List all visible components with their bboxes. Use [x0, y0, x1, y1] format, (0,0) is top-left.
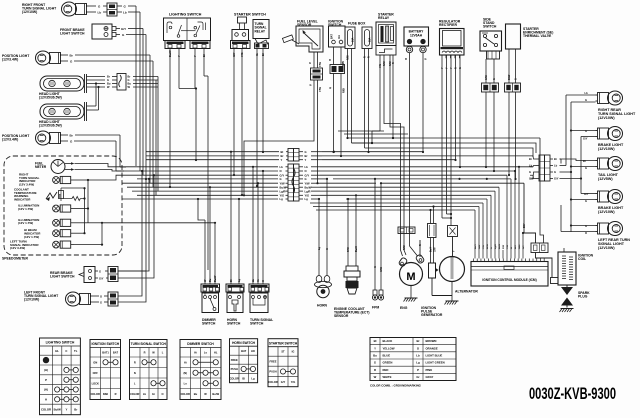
svg-text:R/W: R/W — [383, 61, 386, 66]
svg-text:R/Bl: R/Bl — [519, 244, 521, 249]
svg-text:COLOR: COLOR — [41, 408, 51, 412]
svg-text:R: R — [368, 56, 371, 58]
svg-text:(12V 1.7W): (12V 1.7W) — [24, 235, 39, 239]
bus branch wires right section — [333, 178, 524, 199]
svg-text:Bu/W: Bu/W — [212, 392, 219, 396]
svg-text:SWITCH: SWITCH — [227, 322, 241, 326]
ignition coil primary terminal — [551, 278, 559, 284]
svg-text:TURN SIGNAL SWITCH: TURN SIGNAL SWITCH — [131, 342, 167, 346]
svg-text:(12V10W): (12V10W) — [598, 116, 615, 120]
wires tail light — [570, 159, 596, 170]
svg-text:G: G — [554, 170, 556, 174]
svg-text:(12V3.4W): (12V3.4W) — [2, 58, 18, 62]
svg-text:METER: METER — [35, 165, 47, 169]
svg-text:Bl/W: Bl/W — [487, 243, 489, 249]
svg-text:Lg: Lg — [305, 197, 309, 201]
svg-text:Hi: Hi — [194, 350, 197, 354]
bulb brake light upper — [596, 127, 623, 141]
svg-text:R/Bl: R/Bl — [347, 55, 350, 60]
svg-text:G/W: G/W — [380, 266, 383, 272]
svg-text:(12V 1.7W): (12V 1.7W) — [18, 221, 33, 225]
svg-text:Lg: Lg — [238, 278, 241, 282]
wires rear brake switch to connector — [99, 270, 108, 281]
svg-text:G/Y: G/Y — [281, 380, 286, 384]
svg-text:Bu: Bu — [128, 82, 132, 86]
label position light lower — [2, 134, 30, 142]
harness bus wires out of connector A — [299, 150, 530, 162]
svg-text:W: W — [128, 85, 131, 89]
svg-text:BLACK: BLACK — [383, 339, 393, 343]
label horn switch — [227, 318, 241, 326]
ICM pin wires — [475, 243, 525, 258]
table ignition switch contact table — [90, 340, 121, 400]
wire Br position light lower — [64, 134, 126, 168]
svg-text:IG1: IG1 — [338, 34, 341, 39]
svg-text:Bu/W: Bu/W — [214, 275, 217, 282]
svg-text:Y: Y — [453, 250, 456, 252]
harness wire y134 — [344, 133, 408, 135]
svg-text:Lo: Lo — [184, 381, 188, 385]
svg-text:R/W: R/W — [403, 245, 406, 250]
svg-text:Bl/W: Bl/W — [508, 74, 511, 80]
wire Lb from right front turn signal — [90, 11, 107, 15]
svg-text:(12V10W): (12V10W) — [22, 10, 37, 14]
turn signal switch — [250, 293, 268, 313]
svg-text:Y/G: Y/G — [379, 64, 382, 68]
wires SE valve below connector — [508, 92, 517, 180]
wires brake light lower — [570, 192, 596, 203]
svg-text:(12V10W): (12V10W) — [24, 298, 39, 302]
label turn signal switch — [250, 318, 273, 326]
side stand switch — [480, 31, 502, 59]
svg-text:Y: Y — [66, 408, 68, 412]
svg-text:Y/W: Y/W — [318, 62, 322, 67]
label starter relay — [378, 13, 394, 21]
label headlight 2 — [39, 120, 62, 128]
svg-text:GENERATOR: GENERATOR — [421, 313, 443, 317]
svg-text:LOCK: LOCK — [92, 381, 99, 385]
wires into rear connector — [529, 156, 539, 181]
wire G left front turn signal to harness — [118, 178, 147, 302]
bulb position light lower — [36, 131, 65, 145]
svg-text:HORN SWITCH: HORN SWITCH — [232, 341, 256, 345]
wire G position light lower — [64, 140, 124, 172]
svg-text:Y/G: Y/G — [240, 53, 244, 57]
svg-text:G/Y: G/Y — [121, 27, 126, 31]
svg-text:G: G — [99, 270, 101, 274]
svg-text:COLOR: COLOR — [181, 392, 190, 396]
lighting switch — [164, 18, 211, 41]
label left front turn signal light — [24, 291, 59, 302]
svg-text:Y: Y — [305, 158, 307, 162]
svg-text:G: G — [374, 266, 377, 268]
svg-text:10A: 10A — [352, 37, 355, 42]
svg-text:BAT1: BAT1 — [102, 350, 109, 354]
bulb right front turn signal light — [62, 2, 91, 16]
spark plug gap — [561, 285, 573, 306]
wire Bl from lighting switch — [202, 49, 208, 271]
wire ICM to ignition coil branch — [522, 232, 524, 250]
svg-text:Bu: Bu — [194, 392, 198, 396]
svg-text:Br: Br — [583, 159, 586, 163]
wires headlight 1 to connector — [87, 75, 118, 90]
connector ignition switch 2P — [329, 47, 345, 74]
wire G/Y from front brake switch — [116, 27, 143, 175]
left turn signal indicator — [53, 241, 74, 248]
svg-text:(12V35/36.5W): (12V35/36.5W) — [39, 96, 62, 100]
label right turn signal indicator — [19, 173, 40, 187]
dimmer switch — [202, 293, 219, 313]
svg-text:0030Z-KVB-9300: 0030Z-KVB-9300 — [529, 385, 616, 403]
svg-text:Bu/W: Bu/W — [168, 50, 172, 57]
wires SE valve down — [508, 49, 517, 83]
wire Y/G from starter switch — [240, 49, 244, 197]
wire G battery — [422, 53, 427, 153]
svg-text:Lo: Lo — [204, 350, 208, 354]
svg-text:COLOR COMB. : GROUND/MARKING: COLOR COMB. : GROUND/MARKING — [370, 384, 422, 388]
svg-text:ALTERNATOR: ALTERNATOR — [455, 290, 478, 294]
svg-text:PUSH: PUSH — [269, 370, 276, 374]
svg-text:LIGHT SWITCH: LIGHT SWITCH — [50, 275, 75, 279]
svg-text:DIMMER SWITCH: DIMMER SWITCH — [187, 342, 214, 346]
harness wire y131 — [338, 130, 384, 132]
label ignition switch — [328, 20, 344, 28]
junction stair left harness — [0, 0, 1, 1]
svg-text:ON: ON — [93, 360, 97, 364]
svg-text:IGNITION CONTROL MODULE (ICM): IGNITION CONTROL MODULE (ICM) — [482, 278, 536, 282]
wire fuse2 down — [364, 49, 371, 154]
svg-text:STARTER SWITCH: STARTER SWITCH — [269, 341, 298, 345]
bulb tail light — [596, 157, 623, 171]
wire Bu/W from lighting switch — [168, 49, 172, 189]
rear light bus vertical Lb — [560, 95, 596, 166]
svg-text:(12V10W): (12V10W) — [598, 147, 615, 151]
ICM harness elbow bundle — [475, 187, 499, 250]
dimmer switch wires — [204, 268, 217, 284]
svg-text:R: R — [364, 56, 367, 58]
wires regulator down — [441, 55, 462, 226]
label ignition pulse generator — [421, 306, 443, 317]
wire FPM G from bus — [374, 179, 376, 240]
svg-text:PUSH: PUSH — [231, 367, 238, 371]
connector rear brake switch 2P — [108, 267, 118, 282]
regulator rectifier — [440, 29, 465, 59]
bulb left rear turn signal light — [596, 222, 623, 236]
svg-text:IGNITION SWITCH: IGNITION SWITCH — [91, 342, 119, 346]
svg-text:G: G — [100, 301, 102, 305]
horn switch connector — [226, 284, 244, 292]
right turn signal indicator lamp — [53, 176, 74, 183]
svg-text:G: G — [491, 247, 493, 249]
svg-text:Gr: Gr — [255, 53, 259, 56]
svg-text:P/W: P/W — [503, 244, 505, 249]
svg-text:HO: HO — [251, 349, 255, 353]
speedometer dashed enclosure — [2, 156, 122, 261]
svg-text:G: G — [585, 129, 587, 133]
svg-text:G/W: G/W — [479, 244, 481, 249]
left bus stair jog — [75, 164, 133, 181]
label regulator rectifier — [439, 20, 461, 28]
svg-text:W/B: W/B — [59, 193, 61, 198]
svg-text:(N): (N) — [183, 371, 187, 375]
wire fuse1 down — [346, 49, 351, 144]
svg-text:R: R — [329, 59, 331, 62]
svg-text:INDICATOR: INDICATOR — [14, 197, 31, 201]
svg-text:BAT: BAT — [113, 350, 119, 354]
svg-text:R: R — [392, 62, 395, 64]
connector left front turn signal 2P — [108, 292, 118, 306]
wires headlight 2 join — [87, 82, 100, 110]
connector A 3P — [288, 149, 299, 162]
svg-text:Br: Br — [554, 157, 557, 161]
label illumination lamp 2 — [18, 218, 39, 225]
svg-text:Lg/R: Lg/R — [495, 244, 497, 249]
wire GY to brake upper — [581, 136, 596, 138]
svg-text:Bl: Bl — [281, 150, 284, 154]
wire G to brake upper — [570, 129, 596, 131]
svg-text:Bl: Bl — [230, 279, 233, 282]
svg-text:H: H — [45, 398, 47, 402]
wire G to harness — [117, 5, 136, 167]
svg-text:Lb: Lb — [280, 165, 284, 169]
svg-text:Y: Y — [177, 55, 181, 57]
wire Lg horn from bus — [318, 198, 320, 240]
label coolant temperature warning indicator — [14, 188, 37, 202]
wire R/Bl from ignition switch — [340, 74, 346, 158]
svg-text:GRAY: GRAY — [426, 375, 434, 379]
svg-text:Bl/Y: Bl/Y — [515, 244, 517, 249]
wires headlight connector to harness — [128, 75, 159, 196]
svg-text:LIGHT BLUE: LIGHT BLUE — [426, 354, 443, 358]
wires horn switch to harness — [230, 151, 240, 268]
label rear brake light switch — [50, 271, 75, 279]
starter motor M — [398, 240, 425, 286]
headlight 1 — [40, 74, 87, 93]
table wire color legend — [370, 338, 456, 381]
connector alternator inline — [448, 226, 458, 237]
starter enrichment thermal valve — [506, 24, 521, 49]
wires brake light upper — [583, 129, 588, 141]
svg-text:R/Bl: R/Bl — [343, 88, 346, 93]
harness wire y148 — [365, 148, 534, 157]
svg-text:G: G — [70, 140, 73, 144]
label engine coolant temperature sensor — [334, 307, 370, 318]
svg-text:Bu: Bu — [107, 82, 111, 86]
label right rear turn signal light — [598, 108, 636, 120]
svg-text:Y: Y — [450, 67, 453, 69]
wire G horn from bus — [326, 178, 328, 240]
hi beam indicator — [53, 230, 74, 237]
svg-text:Lg/R: Lg/R — [280, 189, 286, 193]
svg-text:Y: Y — [374, 346, 376, 350]
svg-text:Br: Br — [128, 75, 131, 79]
svg-text:Y/G: Y/G — [280, 194, 285, 198]
svg-text:G: G — [310, 83, 312, 87]
svg-text:Lb: Lb — [252, 278, 255, 282]
svg-text:R: R — [115, 392, 117, 396]
wires side stand below connector — [485, 92, 495, 172]
bulb left front turn signal light — [66, 292, 95, 306]
svg-text:LIGHT GREEN: LIGHT GREEN — [426, 361, 445, 365]
fuse 1 — [345, 27, 355, 49]
wire G from right front turn signal — [90, 5, 107, 9]
label front brake light switch — [60, 28, 85, 36]
wire ECT Bu/O from bus — [355, 194, 357, 240]
wire Gr from turn signal relay — [255, 49, 259, 188]
headlight 2 — [40, 102, 87, 121]
svg-text:N: N — [134, 371, 136, 375]
connector SE valve 2P — [505, 83, 521, 92]
wire FPM G/W from bus — [380, 182, 382, 240]
svg-text:Lb: Lb — [98, 11, 102, 15]
svg-text:WHITE: WHITE — [383, 375, 392, 379]
svg-text:(12V10W): (12V10W) — [598, 246, 615, 250]
svg-text:P: P — [45, 378, 47, 382]
connector right front turn signal 2P — [107, 3, 117, 16]
label position light upper — [2, 54, 30, 62]
svg-text:Bu/O: Bu/O — [499, 243, 501, 249]
svg-text:OFF: OFF — [93, 371, 99, 375]
svg-text:Bu: Bu — [209, 278, 212, 282]
harness bus wires into connector A — [146, 150, 288, 162]
wire Bl/W down to coil connector — [540, 150, 544, 243]
svg-text:O: O — [100, 295, 102, 299]
lighting switch connector left — [165, 41, 185, 49]
label ignition coil — [578, 254, 594, 262]
svg-text:Lb: Lb — [416, 354, 420, 358]
horn switch wires — [230, 268, 241, 284]
wire rear brake switch G/Y to harness — [118, 174, 155, 278]
svg-text:Bu/Y: Bu/Y — [431, 246, 433, 252]
illumination lamp 1 — [53, 205, 74, 212]
label fuel level sensor — [297, 20, 318, 28]
starter switch — [232, 17, 249, 41]
svg-text:RECTIFIER: RECTIFIER — [439, 23, 457, 27]
svg-text:R: R — [134, 360, 136, 364]
connector ignition pulse generator inline — [428, 224, 437, 238]
label left turn signal indicator — [10, 240, 39, 251]
svg-text:O: O — [161, 392, 163, 396]
svg-text:ORANGE: ORANGE — [426, 346, 438, 350]
svg-text:Hi: Hi — [184, 360, 187, 364]
label dimmer switch — [202, 318, 216, 326]
svg-text:G/Y: G/Y — [232, 52, 236, 57]
svg-text:G/Y: G/Y — [554, 177, 559, 181]
svg-text:ST: ST — [281, 350, 285, 354]
svg-text:P: P — [417, 368, 419, 372]
svg-text:P/W: P/W — [347, 247, 350, 252]
harness wire y138 — [348, 137, 541, 150]
svg-text:HL: HL — [55, 349, 59, 353]
horn — [315, 240, 332, 298]
ICM feed verticals — [507, 167, 519, 250]
alternator — [440, 237, 465, 282]
svg-text:IG: IG — [292, 350, 295, 354]
svg-text:R: R — [405, 57, 407, 61]
svg-text:Bl: Bl — [261, 53, 265, 56]
dimmer switch connector — [201, 284, 220, 292]
svg-text:BAT: BAT — [331, 34, 334, 39]
svg-text:BLUE: BLUE — [383, 354, 391, 358]
svg-text:Y: Y — [446, 67, 449, 69]
svg-text:Br: Br — [107, 75, 110, 79]
svg-text:Lg: Lg — [280, 197, 284, 201]
svg-text:G: G — [374, 361, 376, 365]
harness bus wires out of connector B — [299, 165, 533, 201]
svg-text:RED: RED — [383, 368, 389, 372]
svg-text:W: W — [152, 350, 155, 354]
ground under alternator — [445, 282, 459, 305]
table turn signal switch contact table — [130, 340, 168, 400]
wire from fuel sensor to connector — [309, 52, 322, 68]
svg-text:COLOR: COLOR — [268, 380, 277, 384]
svg-text:O: O — [280, 169, 282, 173]
rear light bus vertical GY — [560, 137, 583, 194]
svg-text:RELAY: RELAY — [255, 29, 266, 33]
svg-text:TL: TL — [74, 349, 78, 353]
svg-text:G: G — [305, 177, 307, 181]
svg-text:(12V3.4W): (12V3.4W) — [2, 138, 18, 142]
svg-text:SWITCH: SWITCH — [250, 322, 264, 326]
connector side stand 2P — [482, 83, 499, 92]
svg-text:L: L — [134, 381, 136, 385]
svg-text:Br: Br — [529, 157, 532, 161]
turn signal switch wires — [252, 268, 265, 284]
wire Y from lighting switch right — [193, 49, 197, 162]
svg-text:C: C — [65, 349, 67, 353]
label side stand switch — [483, 18, 497, 29]
svg-text:Y/W: Y/W — [318, 87, 322, 92]
label illumination lamp 1 — [18, 204, 39, 211]
svg-text:SWITCH: SWITCH — [483, 25, 497, 29]
svg-text:Lg/R: Lg/R — [305, 189, 311, 193]
wire Bl/Y to ignition coil — [523, 183, 552, 277]
label spark plug — [578, 291, 590, 299]
svg-text:G: G — [326, 248, 329, 250]
svg-text:G/Y: G/Y — [99, 277, 104, 281]
svg-text:YELLOW: YELLOW — [383, 346, 395, 350]
connector B latch — [292, 168, 295, 193]
horn switch — [227, 293, 243, 313]
connector headlight 4P — [117, 74, 126, 91]
svg-text:(12V 1.7W): (12V 1.7W) — [18, 207, 33, 211]
svg-text:Lg: Lg — [318, 246, 321, 250]
svg-text:G/Y: G/Y — [583, 137, 588, 141]
wires right rear turn signal — [585, 91, 589, 102]
svg-text:LIGHTING SWITCH: LIGHTING SWITCH — [46, 341, 75, 345]
svg-text:BAT: BAT — [241, 349, 247, 353]
svg-text:COIL: COIL — [578, 257, 586, 261]
svg-text:Lb: Lb — [123, 11, 127, 15]
harness bus wires into connector B — [122, 165, 288, 201]
rear light bus vertical G — [560, 102, 596, 232]
wire R from ignition switch — [330, 74, 335, 154]
svg-text:(H): (H) — [44, 388, 48, 392]
svg-text:G/W: G/W — [435, 247, 437, 252]
svg-text:Br: Br — [305, 154, 308, 158]
svg-text:COLOR: COLOR — [230, 376, 239, 380]
svg-text:Y: Y — [193, 55, 197, 57]
svg-text:Bl: Bl — [242, 376, 245, 380]
svg-text:W: W — [107, 85, 110, 89]
svg-text:G: G — [515, 78, 518, 80]
harness wire row y203 — [310, 202, 483, 204]
svg-text:G: G — [122, 33, 125, 37]
svg-text:G: G — [459, 67, 462, 69]
svg-text:O: O — [305, 169, 307, 173]
svg-text:ENG: ENG — [400, 306, 408, 310]
svg-text:G: G — [585, 98, 587, 102]
